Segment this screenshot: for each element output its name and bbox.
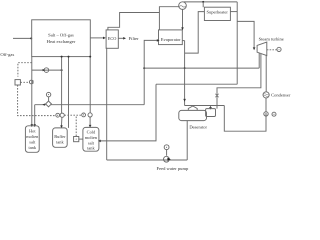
svg-text:Condenser: Condenser [271, 93, 291, 98]
wire ECO to Filter with arrow [118, 37, 126, 40]
economizer ECO box [106, 30, 118, 48]
svg-text:salt: salt [29, 140, 36, 145]
wire HX bottom right to cold tank [89, 56, 91, 113]
flow diamond on salt line [42, 101, 51, 107]
buffer instrument circle [56, 113, 60, 117]
wire HX left bottom to hot tank [31, 57, 34, 128]
wire superheater right to turbine (stepped) [230, 2, 255, 84]
generator circle [277, 47, 281, 51]
dashed line actuator to buffer instrument [18, 85, 56, 116]
wire bottom feed water line [107, 159, 188, 161]
wire off-gas inlet stub [13, 37, 32, 39]
wire deaerator drop to pump line [186, 121, 188, 160]
svg-text:tank: tank [29, 145, 37, 150]
wire turbine exhaust to condenser [265, 55, 267, 92]
wire vertical V1 [236, 2, 238, 84]
cold instrument circle [82, 113, 86, 117]
feed water pump instrument circle [164, 145, 169, 156]
svg-text:tank: tank [87, 146, 95, 151]
svg-text:Feed water pump: Feed water pump [156, 166, 189, 171]
wire deaerator vent to turbine underside [215, 54, 261, 109]
dashed between buffer valve and cold instrument [64, 114, 81, 116]
wire condensate to deaerator (stepped) [209, 106, 266, 132]
wire HX bottom to buffer tank (right) [68, 56, 70, 128]
wire HX to ECO with arrow [90, 37, 106, 40]
deaerator vessel [179, 106, 216, 121]
wire HX bottom to buffer tank (left) [61, 56, 63, 114]
wire across to V1 bottom [156, 83, 237, 85]
superheater box [204, 7, 230, 20]
long mid horizontal salt line [33, 105, 144, 127]
svg-text:salt: salt [88, 140, 95, 145]
control actuator square (dashed loop) [18, 63, 32, 77]
wire filter line down and across (to evaporator inlet) [144, 39, 159, 105]
svg-text:tank: tank [56, 140, 64, 145]
wire ECO top to riser (stepped) [108, 13, 159, 31]
wire branch to turbine inlet with arrow [237, 21, 254, 47]
svg-text:Buffer: Buffer [54, 134, 66, 139]
svg-text:molten: molten [26, 134, 39, 139]
condenser circle [263, 92, 269, 98]
wire drum top steam line to superheater vertical [184, 1, 238, 7]
heat exchanger HX box [32, 20, 91, 57]
wire riser evaporator to steam drum [159, 7, 178, 30]
wire ECO bottom drop (long) [106, 48, 108, 160]
svg-text:Hot: Hot [29, 128, 36, 133]
salt pump square [74, 137, 83, 142]
dashed drop to salt pump square [75, 117, 77, 137]
svg-text:Deaerator: Deaerator [189, 125, 207, 130]
feed water pump circle with arrow [164, 156, 171, 162]
hot molten salt tank [25, 126, 39, 153]
svg-text:Heat exchanger: Heat exchanger [47, 39, 76, 44]
steam drum circle [179, 2, 187, 10]
wire drop into superheater top [202, 2, 204, 7]
steam turbine trapezoid [257, 42, 267, 56]
wire branch with valve to buffer line [32, 68, 63, 73]
svg-text:Salt – Off-gas: Salt – Off-gas [48, 33, 74, 38]
wire evaporator right port into main vertical [182, 40, 184, 42]
instrument circle above diamond [46, 92, 50, 101]
wire cold tank return line with arrow [98, 84, 156, 142]
wire drum downcomer into evaporator with arrow [181, 9, 184, 30]
wire corner down into hot tank [34, 105, 36, 125]
svg-text:Superheater: Superheater [206, 10, 228, 15]
svg-text:ECO: ECO [108, 36, 117, 41]
generator shaft dashed [267, 49, 277, 51]
wire extraction line turbine to left junctions [143, 53, 259, 69]
cold molten salt tank [83, 127, 99, 151]
buffer valve circle with arrow into tank [60, 113, 64, 128]
svg-text:Evaporator: Evaporator [161, 37, 181, 42]
svg-text:Filter: Filter [129, 36, 139, 41]
wire superheater left port down to main vertical [185, 12, 205, 54]
svg-text:Steam turbine: Steam turbine [259, 37, 284, 42]
svg-text:Off-gas: Off-gas [0, 52, 14, 57]
svg-text:Cold: Cold [87, 130, 96, 135]
svg-text:molten: molten [85, 135, 98, 140]
control valve circle on hot tank line [29, 80, 33, 84]
evaporator box [159, 30, 183, 45]
buffer tank [53, 128, 68, 147]
wire main vertical to deaerator [183, 41, 224, 106]
instrument circle beside valve [272, 112, 276, 116]
cold valve circle with arrow into tank [88, 113, 92, 128]
valve circle under condenser [264, 98, 268, 116]
